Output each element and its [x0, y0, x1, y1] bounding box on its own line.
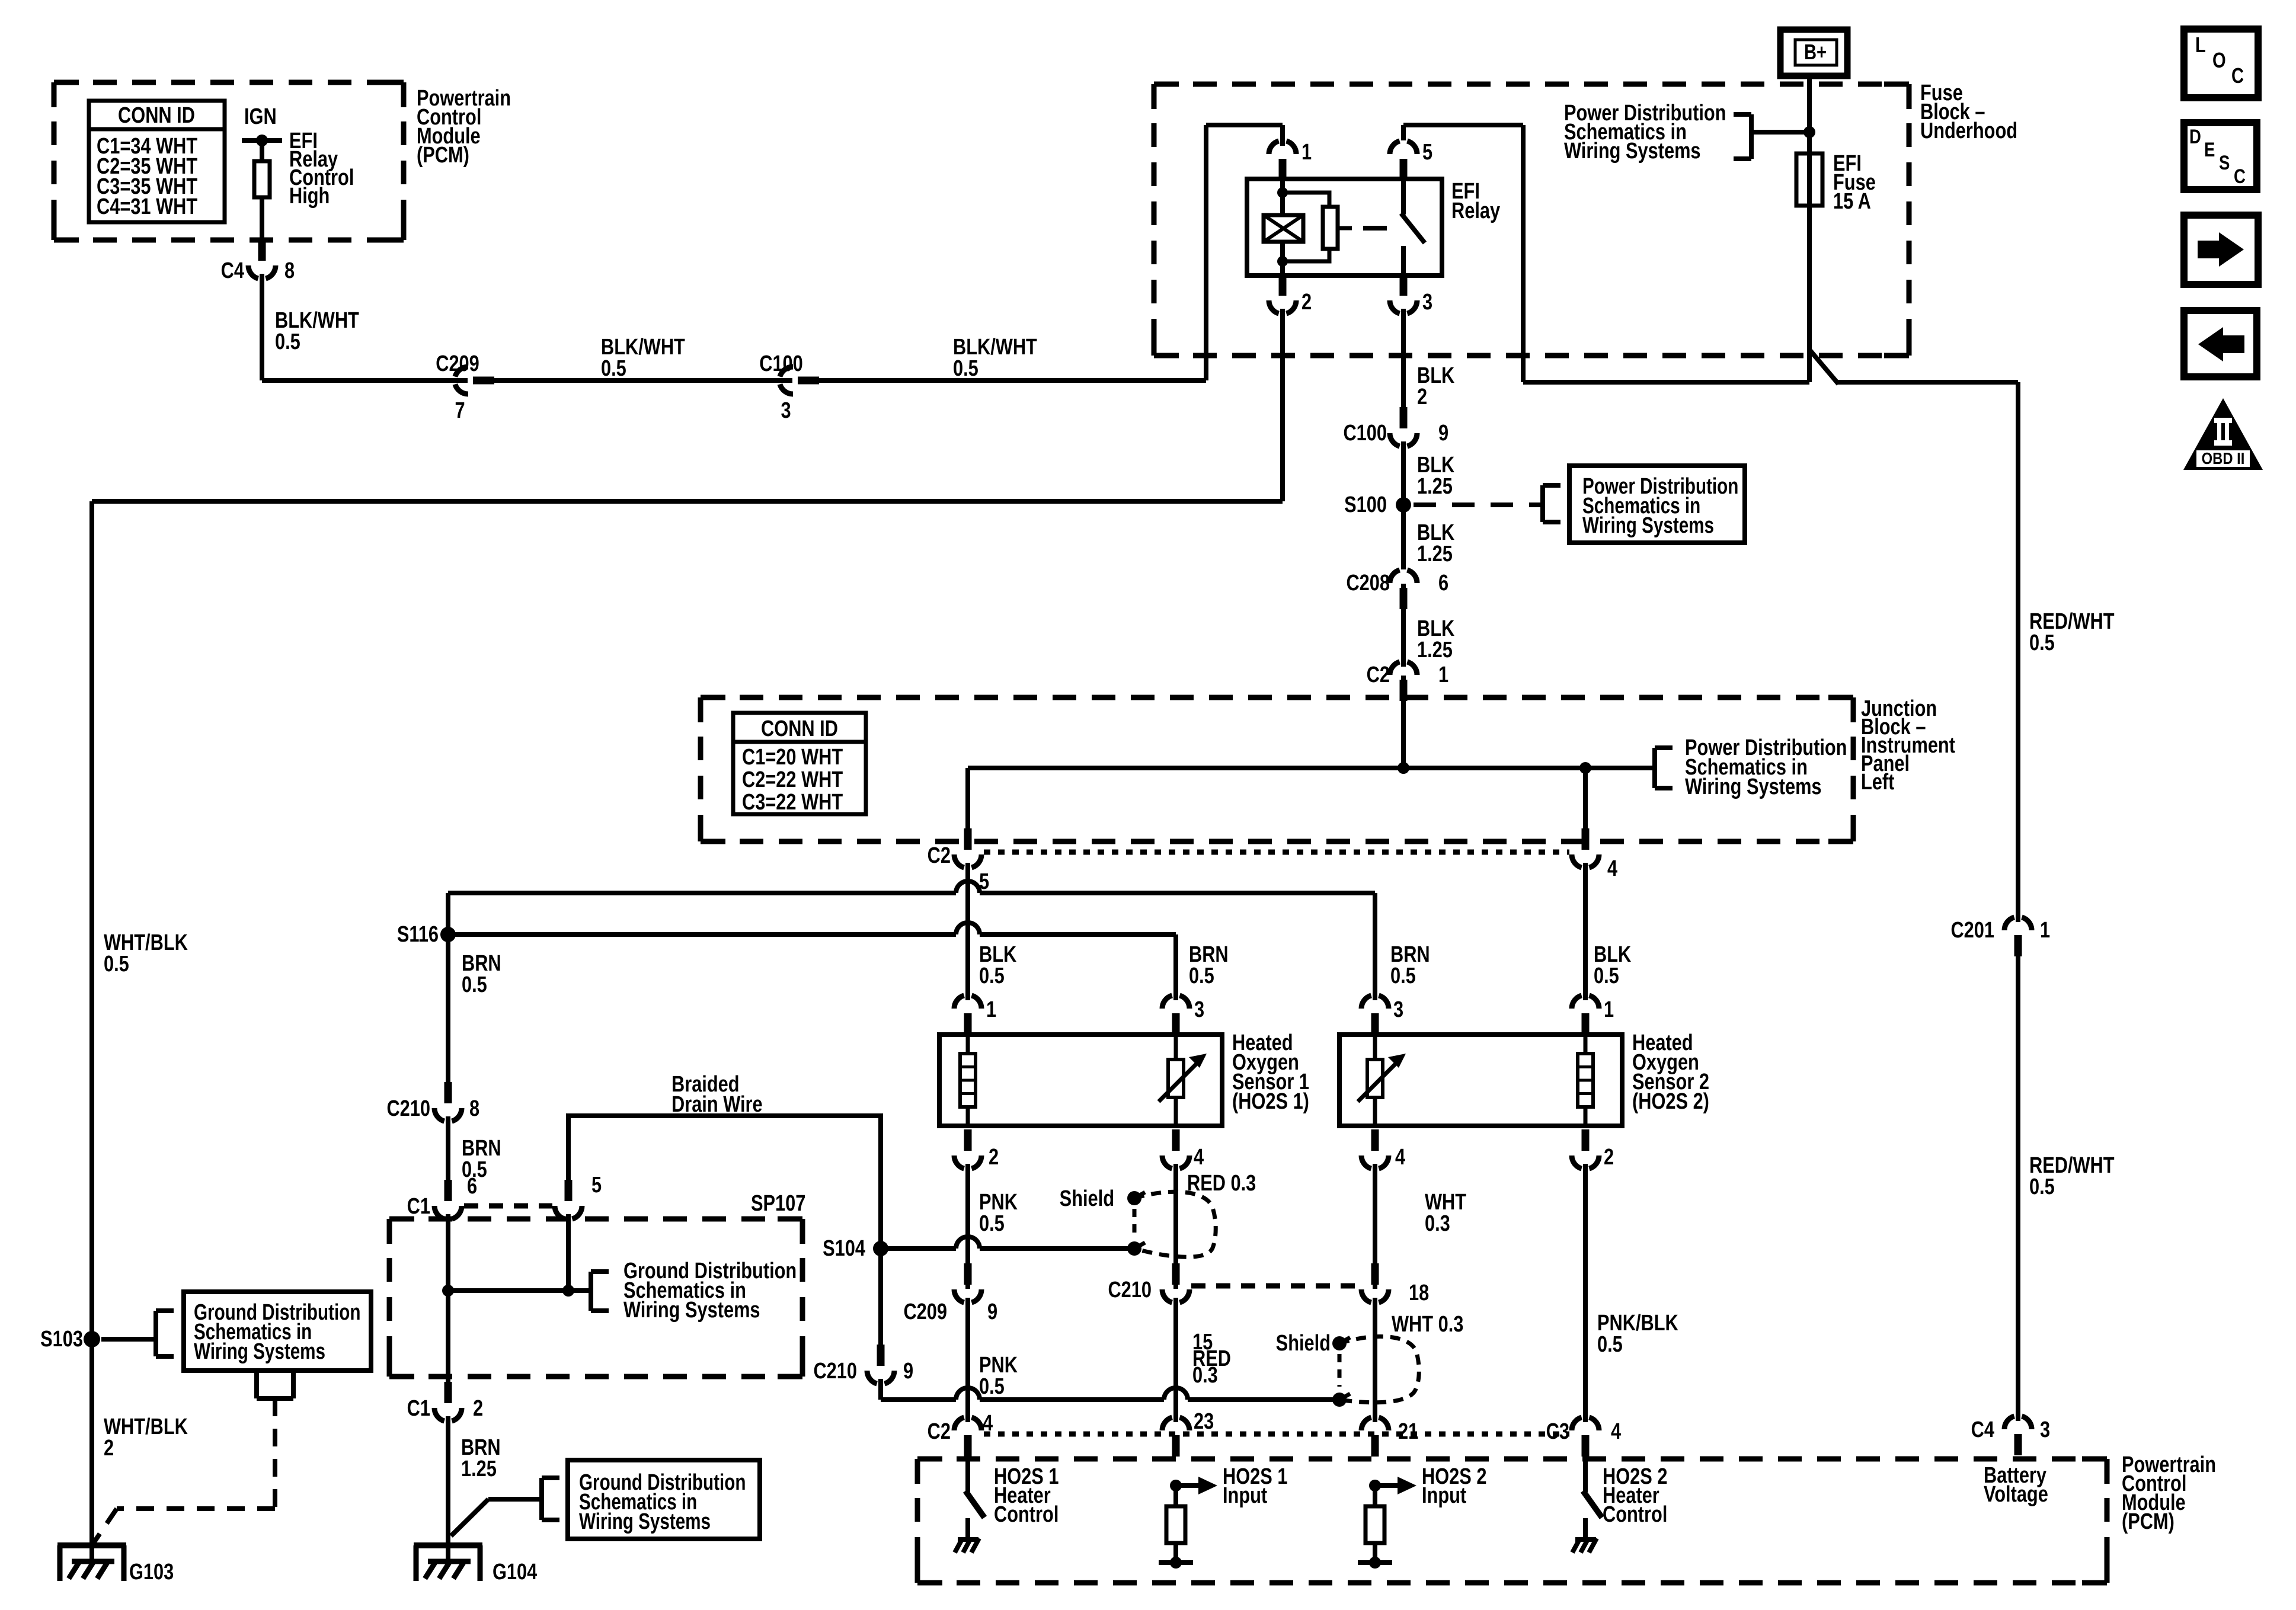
wire relay pin2 down [1280, 300, 1285, 501]
boxed label Ground Distribution (G104) [568, 1460, 760, 1539]
svg-text:C100: C100 [1343, 421, 1387, 446]
wire relay pin2 to WHT/BLK left [92, 501, 1283, 1339]
svg-text:7: 7 [455, 398, 465, 423]
connector relay pin 1 [1269, 140, 1312, 180]
svg-text:S104: S104 [823, 1236, 866, 1261]
svg-text:0.3: 0.3 [1425, 1211, 1450, 1236]
svg-text:E: E [2204, 138, 2215, 161]
connector C4 pin 8 [221, 239, 295, 283]
svg-text:Control: Control [1603, 1502, 1667, 1527]
svg-text:5: 5 [1422, 140, 1432, 165]
svg-text:2: 2 [104, 1436, 114, 1461]
connector C2 pin 1 (junction block) [1367, 661, 1448, 701]
svg-text:S116: S116 [397, 922, 439, 947]
HO2S2 label [1632, 1030, 1709, 1114]
svg-text:2: 2 [1417, 385, 1427, 409]
svg-text:C3: C3 [1546, 1419, 1569, 1444]
label Power Distribution (fuse block) [1564, 101, 1726, 164]
svg-text:0.5: 0.5 [1594, 964, 1619, 988]
connector HO2S2 pin 3 [1361, 995, 1403, 1035]
dashed route to G103 [92, 1398, 275, 1545]
svg-text:Input: Input [1422, 1483, 1467, 1508]
wire drop to C2 pin 5 [965, 768, 970, 830]
label BLK 1.25 (b) [1417, 520, 1454, 566]
wire drop to C2 pin 4 [1583, 768, 1588, 830]
svg-text:1.25: 1.25 [1417, 542, 1453, 566]
label WHT 0.3 (lower) [1392, 1312, 1463, 1337]
svg-text:C201: C201 [1950, 918, 1994, 943]
svg-text:C4: C4 [221, 258, 245, 283]
switch HO2S1 heater control [955, 1458, 984, 1553]
boxed label Power Distribution (S100) [1569, 466, 1745, 543]
label BRN 1.25 [461, 1435, 501, 1481]
node HO2S2 input [1369, 1477, 1416, 1494]
svg-text:3: 3 [1422, 290, 1432, 315]
svg-text:8: 8 [284, 258, 295, 283]
svg-text:(PCM): (PCM) [2122, 1509, 2175, 1534]
svg-text:8: 8 [469, 1096, 479, 1121]
svg-text:Underhood: Underhood [1920, 119, 2017, 143]
label BRN 0.5 (S116) [462, 951, 501, 997]
label BLK 1.25 (c) [1417, 616, 1454, 662]
svg-text:0.5: 0.5 [2029, 1174, 2055, 1199]
svg-text:CONN ID: CONN ID [118, 103, 195, 128]
svg-text:Input: Input [1223, 1483, 1268, 1508]
connector C210 pin 9 [813, 1345, 913, 1384]
wire BRN S116 to C210-8 [446, 934, 450, 1084]
svg-text:Left: Left [1861, 770, 1895, 795]
shield 2 [1332, 1336, 1419, 1407]
connector C209 pin 9 [903, 1263, 997, 1324]
bracket ground distribution (SP107) [591, 1272, 609, 1311]
svg-text:4: 4 [1395, 1145, 1406, 1170]
svg-text:C: C [2231, 63, 2244, 88]
connector C4 pin 3 (PCM) [1971, 1416, 2050, 1455]
resistor HO2S2 input [1366, 1486, 1384, 1563]
connector HO2S1 pin 1 [954, 995, 996, 1035]
wire into junction block [1401, 675, 1406, 768]
svg-text:5: 5 [591, 1173, 602, 1198]
svg-text:0.5: 0.5 [979, 1374, 1005, 1399]
junction dot C1 wire [442, 1285, 454, 1297]
wire BRN line B [448, 923, 1176, 1009]
svg-text:(HO2S 2): (HO2S 2) [1632, 1089, 1709, 1114]
junction dot bus/C2-4 [1579, 762, 1591, 774]
svg-text:0.5: 0.5 [462, 972, 487, 997]
dashed leader S100 [1414, 485, 1560, 522]
svg-text:21: 21 [1398, 1419, 1418, 1444]
CONN ID table (junction block) [733, 713, 866, 815]
svg-text:O: O [2212, 48, 2226, 72]
HO2S2 heater element [1578, 1030, 1593, 1126]
svg-text:1: 1 [1604, 997, 1614, 1022]
connector HO2S1 pin 2 [954, 1129, 999, 1170]
label Shield 2 [1276, 1331, 1331, 1356]
connector C201 pin 1 [1950, 917, 2050, 956]
wire BRN 1.25 to G104 [446, 1408, 450, 1564]
svg-text:C1: C1 [407, 1194, 430, 1219]
svg-text:C4=31 WHT: C4=31 WHT [97, 194, 197, 219]
label Ground Distribution (SP107) [623, 1259, 797, 1323]
wire relay pin1 stub [1280, 125, 1285, 154]
label HO2S 1 Heater Control [994, 1464, 1059, 1527]
label PNK 0.5 (upper) [979, 1190, 1018, 1236]
junction block bus wire [968, 766, 1655, 770]
connector C210 pin 8 [386, 1082, 479, 1122]
PCM top-left dashed box [54, 82, 404, 240]
svg-text:15 A: 15 A [1833, 189, 1871, 214]
label BLK/WHT 0.5 (c) [953, 335, 1037, 381]
ground G104 [414, 1545, 538, 1585]
svg-text:6: 6 [467, 1174, 477, 1199]
splice S116 [397, 922, 456, 947]
wire WHT/BLK to G103 [89, 1339, 94, 1564]
ground G103 [57, 1545, 174, 1585]
dashed connector row C210 [1191, 1283, 1360, 1289]
svg-text:WHT/BLK: WHT/BLK [104, 1414, 188, 1439]
svg-text:(HO2S 1): (HO2S 1) [1232, 1089, 1309, 1114]
svg-text:C100: C100 [759, 351, 803, 376]
svg-text:2: 2 [1604, 1145, 1614, 1170]
svg-text:C2: C2 [928, 1419, 951, 1444]
connector C100 pin 3 [759, 351, 819, 423]
wire BRN C210-8 to C1-6 [446, 1108, 450, 1185]
svg-text:1: 1 [986, 997, 996, 1022]
svg-text:Voltage: Voltage [1984, 1482, 2048, 1507]
connector C3 pin 4 (PCM) [1546, 1417, 1622, 1457]
dotted connector row C2/C3 (PCM) [984, 1432, 1569, 1437]
label BRN 0.5 (HO2S1) [1189, 942, 1229, 988]
svg-text:4: 4 [983, 1411, 993, 1436]
PCM bottom label [2122, 1452, 2216, 1534]
svg-text:CONN ID: CONN ID [761, 716, 838, 741]
hanger below S103 box [257, 1371, 293, 1398]
svg-text:D: D [2189, 125, 2201, 148]
wire C1-6 down [446, 1206, 450, 1387]
wire S104 down to C210-9 [878, 1249, 883, 1348]
svg-text:0.5: 0.5 [601, 356, 626, 381]
splice S100 [1344, 492, 1411, 517]
relay actuator link [1338, 226, 1387, 231]
svg-text:0.5: 0.5 [104, 952, 129, 977]
label BLK/WHT 0.5 (a) [275, 308, 359, 354]
boxed label Ground Distribution (S103) [184, 1292, 371, 1371]
svg-text:Wiring Systems: Wiring Systems [1685, 774, 1822, 799]
svg-text:C2=22 WHT: C2=22 WHT [742, 767, 843, 792]
label BRN 0.5 (HO2S2) [1390, 942, 1430, 988]
label WHT/BLK 0.5 [104, 930, 188, 977]
bracket ground distribution (S103) [156, 1311, 174, 1356]
node IGN [242, 104, 282, 146]
svg-text:S103: S103 [40, 1327, 83, 1352]
svg-text:C3=22 WHT: C3=22 WHT [742, 790, 843, 815]
svg-text:1: 1 [1302, 140, 1312, 165]
resistor HO2S1 input [1166, 1486, 1185, 1563]
leader S103 to bracket [101, 1337, 156, 1342]
relay coil circuit [1264, 179, 1338, 276]
icon OBD II [2183, 398, 2263, 470]
Junction Block dashed box [701, 697, 1853, 841]
CONN ID table (PCM) [89, 101, 225, 222]
wire BLK relay pin3 down [1401, 300, 1406, 415]
wire B+ to EFI fuse [1807, 76, 1812, 153]
svg-text:S: S [2219, 151, 2230, 174]
connector C210 pin 18 [1361, 1263, 1429, 1305]
svg-text:C: C [2234, 165, 2246, 187]
Junction Block label [1861, 696, 1955, 795]
svg-text:Wiring Systems: Wiring Systems [194, 1339, 325, 1364]
svg-text:0.5: 0.5 [979, 964, 1005, 988]
connector HO2S2 pin 1 [1572, 995, 1614, 1035]
Fuse Block - Underhood dashed box [1154, 84, 1909, 356]
resistor EFI Relay Control High [254, 129, 354, 209]
label SP107 [751, 1191, 805, 1216]
svg-text:1: 1 [1438, 662, 1448, 687]
svg-text:4: 4 [1607, 856, 1618, 881]
wire BLK/WHT C209 to C100 [490, 378, 793, 383]
bracket power distribution (junction) [1655, 748, 1673, 788]
svg-text:C210: C210 [813, 1359, 857, 1384]
svg-text:C210: C210 [1108, 1278, 1152, 1302]
Fuse Block label [1920, 81, 2017, 143]
connector HO2S1 pin 4 [1162, 1129, 1204, 1170]
label HO2S 2 Heater Control [1603, 1464, 1667, 1527]
svg-text:C2: C2 [1367, 662, 1390, 687]
relay box EFI Relay [1247, 179, 1501, 276]
HO2S1 sense element [1159, 1030, 1207, 1126]
svg-text:1.25: 1.25 [461, 1457, 497, 1481]
connector C2 pin 4 [1572, 828, 1618, 881]
svg-text:4: 4 [1194, 1145, 1204, 1170]
wire BLK C2-4 to HO2S2 pin1 [1583, 854, 1588, 1009]
svg-text:OBD II: OBD II [2202, 449, 2245, 468]
svg-text:Wiring Systems: Wiring Systems [623, 1298, 760, 1323]
connector relay pin 5 [1390, 140, 1432, 180]
wire WHT HO2S2-4 down [1373, 1156, 1377, 1289]
relay switch [1401, 179, 1425, 276]
splice S103 [40, 1327, 100, 1352]
Ground Distribution dashed box [389, 1219, 802, 1377]
leader G104 to bracket [451, 1499, 542, 1536]
svg-text:1.25: 1.25 [1417, 474, 1453, 499]
HO2S1 label [1232, 1030, 1309, 1114]
connector relay pin 2 [1269, 274, 1312, 315]
svg-text:9: 9 [903, 1359, 913, 1384]
connector C2 pin 21 (PCM) [1361, 1417, 1418, 1457]
svg-text:WHT 0.3: WHT 0.3 [1392, 1312, 1463, 1337]
HO2S1 box [939, 1035, 1222, 1126]
svg-text:C208: C208 [1346, 571, 1390, 596]
svg-text:C1=20 WHT: C1=20 WHT [742, 745, 843, 770]
label Shield 1 [1060, 1186, 1114, 1211]
svg-text:18: 18 [1409, 1281, 1429, 1305]
svg-text:23: 23 [1194, 1409, 1214, 1434]
label HO2S 1 Input [1223, 1464, 1287, 1508]
svg-text:0.5: 0.5 [953, 356, 978, 381]
wire EFI fuse down [1807, 206, 1812, 382]
connector C1 pin 2 [407, 1382, 483, 1422]
junction dot B+ feed [1803, 126, 1815, 138]
svg-text:L: L [2195, 33, 2206, 57]
svg-text:4: 4 [1611, 1419, 1622, 1444]
wire WHT to PCM 21 [1373, 1289, 1377, 1430]
termination HO2S2 [1358, 1557, 1392, 1569]
svg-text:RED 0.3: RED 0.3 [1187, 1171, 1256, 1196]
svg-text:0.5: 0.5 [1597, 1332, 1623, 1357]
PCM label [417, 86, 511, 168]
bracket ground distribution (G104) [542, 1478, 559, 1520]
svg-text:Drain Wire: Drain Wire [671, 1092, 763, 1117]
switch HO2S2 heater control [1572, 1458, 1602, 1553]
wire BLK/WHT C100 to fuse block [814, 125, 1283, 380]
label BRN 0.5 (C210-8) [462, 1136, 501, 1182]
HO2S2 sense element [1358, 1030, 1406, 1126]
svg-text:IGN: IGN [244, 104, 277, 129]
wire to ground bracket [448, 1285, 591, 1297]
icon right-arrow box [2184, 215, 2258, 284]
svg-text:0.5: 0.5 [275, 329, 300, 354]
connector HO2S2 pin 4 [1361, 1129, 1406, 1170]
svg-text:S100: S100 [1344, 492, 1387, 517]
wire PNK C209-9 to C2-4 [965, 1289, 970, 1430]
connector C1 pin 5 [555, 1173, 602, 1219]
B+ terminal [1780, 30, 1847, 76]
wire BLK C2-5 to HO2S1 pin1 [965, 854, 970, 1009]
connector C210 pin 15 [1108, 1263, 1189, 1303]
svg-text:(PCM): (PCM) [417, 143, 469, 168]
label RED/WHT 0.5 (upper) [2029, 609, 2115, 655]
label 15 RED 0.3 [1192, 1330, 1231, 1388]
connector C208 pin 6 [1346, 569, 1448, 609]
connector C2 pin 5 [928, 828, 989, 894]
svg-text:Control: Control [994, 1502, 1059, 1527]
svg-text:SP107: SP107 [751, 1191, 805, 1216]
wire RED/WHT from fuse block [1809, 350, 2018, 930]
svg-text:C210: C210 [386, 1096, 430, 1121]
braided drain wire [568, 1116, 881, 1249]
svg-text:5: 5 [979, 869, 989, 894]
wire drain to shield2 [881, 1371, 1339, 1400]
svg-text:C4: C4 [1971, 1417, 1995, 1442]
wire BLK 1.25 (b) [1401, 505, 1406, 569]
HO2S2 box [1339, 1035, 1622, 1126]
wire S104 to shield1 [881, 1237, 1134, 1249]
connector C2 pin 23 (PCM) [1162, 1409, 1214, 1457]
svg-text:2: 2 [473, 1396, 483, 1421]
bracket power distribution (fuse block) [1734, 114, 1809, 159]
svg-text:C209: C209 [903, 1299, 947, 1324]
wire IGN resistor to C4 pin 8 [260, 197, 264, 243]
svg-text:Wiring Systems: Wiring Systems [579, 1509, 711, 1534]
wire BLK 1.25 (c) [1401, 583, 1406, 675]
svg-text:C2: C2 [928, 843, 951, 868]
svg-text:2: 2 [1302, 290, 1312, 315]
connector C1 pin 6 [407, 1174, 477, 1219]
svg-text:G103: G103 [129, 1560, 174, 1585]
HO2S1 heater element [960, 1030, 976, 1126]
svg-text:9: 9 [1438, 421, 1448, 446]
wire C1-5 down [566, 1206, 571, 1291]
svg-text:3: 3 [1194, 997, 1204, 1022]
label PNK/BLK 0.5 [1597, 1311, 1678, 1357]
svg-text:Wiring Systems: Wiring Systems [1582, 513, 1714, 538]
wire relay pin5 to fuse node [1403, 125, 1809, 382]
svg-text:Shield: Shield [1060, 1186, 1114, 1211]
connector relay pin 3 [1390, 274, 1432, 315]
svg-text:3: 3 [2040, 1417, 2050, 1442]
label Braided Drain Wire [671, 1072, 763, 1117]
PCM bottom dashed box [917, 1459, 2107, 1583]
connector HO2S2 pin 2 [1572, 1129, 1614, 1170]
wire BLK/WHT C4-8 to C209 [262, 265, 468, 380]
splice S104 [823, 1236, 888, 1261]
shield 1 [1127, 1191, 1216, 1257]
wire BLK 1.25 (a) [1401, 433, 1406, 505]
svg-text:Shield: Shield [1276, 1331, 1331, 1356]
svg-text:G104: G104 [493, 1560, 538, 1585]
svg-text:3: 3 [781, 398, 791, 423]
fuse EFI Fuse 15A [1796, 151, 1876, 214]
icon left-arrow box [2184, 311, 2257, 377]
node HO2S1 input [1170, 1477, 1217, 1494]
label HO2S 2 Input [1422, 1464, 1486, 1508]
label Battery Voltage [1984, 1463, 2048, 1507]
svg-text:0.5: 0.5 [1189, 964, 1214, 988]
termination HO2S1 [1159, 1557, 1193, 1569]
label Power Distribution (junction) [1685, 735, 1847, 799]
svg-text:0.3: 0.3 [1192, 1363, 1218, 1388]
wire PNK/BLK HO2S2-2 down [1583, 1156, 1588, 1430]
label BLK 0.5 (HO2S2) [1594, 942, 1631, 988]
label BLK/WHT 0.5 (b) [601, 335, 685, 381]
svg-text:0.5: 0.5 [979, 1211, 1005, 1236]
label PNK 0.5 (lower) [979, 1353, 1018, 1399]
dashed connector row C1 [464, 1204, 552, 1209]
svg-text:3: 3 [1393, 997, 1403, 1022]
connector C209 pin 7 [436, 351, 494, 423]
wire BRN line A [448, 881, 1375, 1009]
svg-text:1.25: 1.25 [1417, 638, 1453, 662]
wire RED HO2S1-4 down [1173, 1156, 1178, 1289]
wire RED/WHT to C4 pin 3 [2016, 952, 2020, 1429]
label WHT/BLK 2 [104, 1414, 188, 1461]
svg-text:9: 9 [987, 1299, 997, 1324]
svg-text:High: High [289, 184, 330, 209]
svg-text:Relay: Relay [1451, 199, 1501, 223]
label RED 0.3 [1187, 1171, 1256, 1196]
wire PNK HO2S1-2 down [965, 1156, 970, 1289]
connector HO2S1 pin 3 [1162, 995, 1204, 1035]
label BLK 0.5 (HO2S1) [979, 942, 1016, 988]
svg-text:C1: C1 [407, 1396, 430, 1421]
svg-text:0.5: 0.5 [2029, 630, 2055, 655]
dotted connector row C2 [984, 850, 1569, 855]
label RED/WHT 0.5 (lower) [2029, 1153, 2115, 1199]
svg-text:B+: B+ [1804, 40, 1827, 64]
label BLK 2 [1417, 363, 1454, 409]
icon DESC box [2184, 123, 2257, 190]
icon LOC box [2184, 29, 2258, 98]
connector C100 pin 9 [1343, 407, 1448, 447]
svg-text:1: 1 [2040, 918, 2050, 943]
svg-text:6: 6 [1438, 571, 1448, 596]
svg-text:Wiring Systems: Wiring Systems [1564, 139, 1701, 164]
label WHT 0.3 (upper) [1425, 1190, 1466, 1236]
junction dot bus/C2-1 [1398, 762, 1409, 774]
wire RED to PCM 23 [1173, 1289, 1178, 1430]
svg-text:2: 2 [989, 1145, 999, 1170]
svg-text:0.5: 0.5 [1390, 964, 1416, 988]
